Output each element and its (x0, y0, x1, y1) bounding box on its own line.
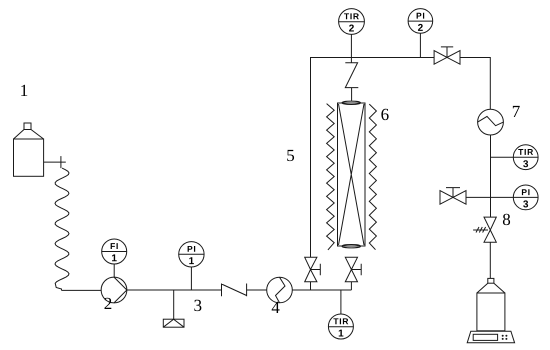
wire pump to check valve (127, 289, 222, 291)
label 3 (194, 300, 201, 311)
wire coil to pump (62, 289, 102, 291)
label 2 (105, 298, 112, 309)
coil (55, 168, 69, 290)
instrument TIR2 (339, 9, 365, 35)
wire TIR1 stem (340, 290, 342, 314)
valve V3 top (434, 47, 460, 64)
wire valve2 drop (350, 282, 352, 290)
drain funnel (163, 319, 184, 327)
valve V8 (484, 217, 496, 242)
valve V2 (345, 257, 361, 282)
wire PI1 stem (190, 267, 192, 290)
label 6 (381, 109, 388, 120)
wire TIR3 branch (491, 156, 514, 158)
label 5 (287, 150, 294, 161)
instrument TIR1 (328, 314, 353, 339)
label 4 (272, 302, 280, 313)
reactor column (338, 101, 366, 248)
wire drain tee (173, 290, 175, 319)
hatch marks valve8 (473, 227, 488, 233)
instrument PI3 (513, 185, 538, 210)
wire valve to corner down to HX7 (460, 58, 490, 110)
balance (467, 331, 514, 343)
check valve (222, 284, 247, 297)
instrument TIR3 (513, 145, 538, 170)
heat exchanger U7 (478, 109, 504, 135)
wire PI2 stem (419, 33, 421, 57)
wire heater4 to valves (292, 289, 351, 291)
wire left riser 5 (311, 58, 435, 258)
wire valve8 to bottle (489, 242, 491, 278)
instrument PI1 (179, 242, 204, 267)
cylinder valve tick (60, 156, 62, 168)
Z connector (345, 58, 358, 101)
wire FI1 stem (113, 264, 115, 277)
wire cylinder outlet (44, 161, 66, 163)
valve V4 branch (440, 188, 466, 205)
label 8 (503, 214, 510, 225)
wire valve1 drop (310, 282, 312, 290)
valve V1 (305, 257, 321, 282)
label 1 (21, 85, 27, 96)
heater U4 (267, 277, 293, 303)
instrument FI1 (102, 239, 127, 264)
heater zigzag left (327, 104, 335, 250)
gas cylinder 1 (14, 123, 44, 176)
wire TIR2 stem (350, 34, 352, 57)
instrument PI2 (408, 9, 433, 34)
heater zigzag right (369, 104, 376, 250)
wire HX7 down to valve8 (490, 135, 492, 217)
wire valve4 to PI3 (466, 196, 513, 198)
pump P2 (101, 277, 127, 303)
collection bottle (477, 278, 505, 330)
wire check valve to heater4 (247, 289, 267, 291)
label 7 (513, 106, 520, 117)
